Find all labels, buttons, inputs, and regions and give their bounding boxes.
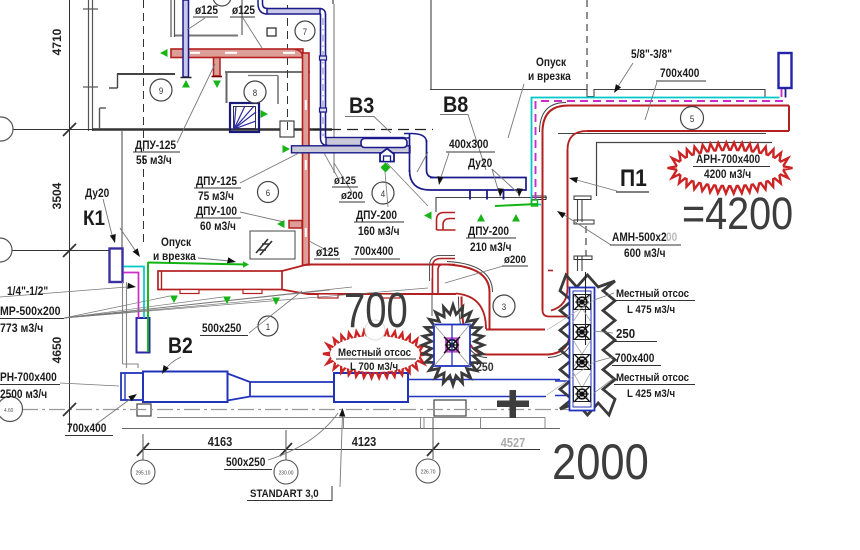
green arrow left B8 [424,212,432,220]
svg-text:3: 3 [502,302,507,313]
ceiling line y89 long [430,90,765,98]
wall x432 near U-turn [431,278,433,316]
red zigzag bubble Mestny otsos L700 [323,330,428,378]
wall stub mid-left [83,86,98,88]
leader 400x300 [440,153,449,180]
svg-text:226.70: 226.70 [421,469,436,475]
magenta pipe K1 [124,273,139,319]
green line opusk [148,263,247,265]
red duct 700 main horizontal [307,265,456,295]
svg-text:ДПУ-200: ДПУ-200 [468,225,509,238]
red duct descending wall right [489,292,491,329]
leader 500x250 lower [268,413,338,460]
level circle 295.10 [131,460,155,484]
red duct bottom-left outer arc [462,297,488,355]
axis circle row3 [0,397,23,422]
room circle 6 [258,182,279,203]
B8 riser from collector [404,134,412,139]
svg-text:МР-500х200: МР-500х200 [0,305,60,318]
red stub DPU-100 [289,221,302,229]
svg-text:Ду20: Ду20 [85,187,109,200]
blue box below K1 [137,318,150,353]
red duct top horizontal filled [171,49,303,58]
beam band above bottom dim [122,428,560,430]
B2 duct narrow run right [408,379,560,381]
red small cap x548 [548,270,553,272]
leader DPU-125-75 [240,153,299,183]
B8 room wall x431 [430,0,432,90]
svg-text:5: 5 [690,114,695,125]
svg-text:9: 9 [159,86,164,97]
red stub drop DPU-125 [214,58,221,77]
axis circle row1 [0,117,13,141]
fan glyph 4 [574,387,591,402]
svg-text:700х400: 700х400 [354,245,393,258]
room circle 3 [493,295,515,317]
svg-text:В2: В2 [168,334,193,358]
leader o200 B3 [334,163,352,192]
green arrows on MP leaders [170,296,178,304]
svg-text:60 м3/ч: 60 м3/ч [200,220,236,233]
B2 duct left cap box [121,373,143,400]
big plus sign [497,401,529,408]
room circle partial top [213,0,231,6]
wall vertical x242 [241,0,243,35]
svg-text:4.60: 4.60 [4,408,14,414]
svg-text:ø200: ø200 [341,191,363,203]
wardrobe symbol rect [250,231,295,259]
fan assembly centerline [585,272,587,345]
fan assembly blue rect [570,288,595,411]
level circle 230.00 [274,460,298,484]
leader DPU-200 green diamond [385,172,388,207]
svg-text:773 м3/ч: 773 м3/ч [0,322,43,335]
partition dashed x287 [287,5,289,130]
level circle 226.70 [416,459,440,483]
red duct 700 flanges [318,294,338,298]
svg-text:700: 700 [344,284,408,339]
room circle 5 [681,107,704,130]
bottom dim extension lines [142,434,144,461]
red duct right wall arc to fan assembly [551,288,568,311]
wall room8 left pier [226,72,228,103]
svg-text:и врезка: и врезка [528,70,572,83]
svg-text:2500 м3/ч: 2500 м3/ч [0,388,47,401]
dim tick row2 [63,244,76,257]
leader B2 [164,357,181,371]
wall corner top x333 [332,0,334,4]
B2 duct taper [228,374,251,401]
wall gray riser x334 [333,4,335,173]
leader STANDART [340,414,343,487]
partition dashed x143 [143,0,145,245]
svg-text:ДПУ-200: ДПУ-200 [356,209,397,222]
room circle 9 [150,79,172,101]
svg-text:400х300: 400х300 [449,138,488,151]
red duct bottom run [486,329,545,331]
room circle 4 [372,182,394,204]
svg-text:7: 7 [303,27,308,38]
svg-text:5/8"-3/8": 5/8"-3/8" [631,48,672,61]
B2 duct mid box [334,373,408,402]
green arrow down red stub [213,81,221,89]
wardrobe zigzag marks [256,239,272,255]
dashed line B3 corridor [313,129,433,131]
black zigzag ring around left fan [423,305,484,385]
axis line row1 [12,129,92,131]
svg-text:К1: К1 [83,207,105,230]
leader Du20 B8 [492,169,499,193]
B8 duct tabs [469,190,471,200]
red duct turn up right outer arc [548,331,570,355]
leader o125 B3 [324,153,338,178]
svg-text:L 425 м3/ч: L 425 м3/ч [627,389,675,401]
blue duct vertical B3 riser [320,14,322,138]
room circle 7 [295,21,315,41]
svg-text:АРН-700х400: АРН-700х400 [696,153,760,166]
bottom dim ticks [137,443,149,456]
wall vertical double x171 [170,0,172,37]
svg-text:1/4"-1/2": 1/4"-1/2" [7,285,48,298]
svg-text:250: 250 [616,326,635,341]
svg-text:00: 00 [666,231,677,244]
leader opusk-1 [198,258,230,261]
svg-text:4200 м3/ч: 4200 м3/ч [704,168,751,181]
svg-text:Местный отсос: Местный отсос [616,289,689,301]
wall left vertical double [88,0,90,131]
wall interior room9 horizontal [117,73,175,75]
magenta dashed line top-right [536,89,784,204]
wall pier bar [574,220,594,224]
svg-text:55 м3/ч: 55 м3/ч [136,154,172,167]
wall pier right vertical [577,200,579,222]
red duct turn down inner [456,294,486,330]
B2 duct narrow run [250,381,334,383]
leader o125-1 [187,18,205,30]
box below fan [434,400,466,416]
wall K1 vertical x122 [121,131,123,248]
svg-text:Опуск: Опуск [536,56,567,69]
wall under B8 duct [436,198,547,213]
red zigzag bubble ARN-700x400 [668,143,793,194]
svg-text:Ду20: Ду20 [468,157,492,170]
damper house symbol [380,149,394,162]
green arrow right collector [283,145,291,153]
svg-text:ДПУ-100: ДПУ-100 [196,205,237,218]
left fan box blue [434,325,470,367]
leader opusk-2 [508,84,524,138]
svg-text:4163: 4163 [208,435,233,449]
svg-text:250: 250 [476,361,494,374]
leader K1 second [120,228,137,253]
wall jog lower-left of room 9 [99,108,101,129]
B3 collector elbow [321,138,329,146]
svg-text:8: 8 [253,88,258,99]
bottom dimension line [143,449,540,451]
shaft fan lines [234,106,236,129]
hanger below B2 duct [137,404,151,416]
leader o125 bottom [309,241,330,252]
shaft hatched square inner [234,107,256,129]
dimension vertical line left [69,0,71,432]
green arrow left end red duct [160,49,168,57]
svg-text:В8: В8 [443,93,469,117]
svg-text:АМН-500х2: АМН-500х2 [612,231,667,244]
axis line row2 [11,250,122,252]
red duct 500x200 left [158,271,282,290]
leader B8 [440,115,486,171]
blue riser centerline [322,18,324,136]
room circle 8 [244,81,266,103]
wall room8 top [225,71,310,73]
red duct corner top [295,50,303,58]
wall room8 right pier [277,76,279,105]
P1 room wall [597,143,773,197]
leader RN-700x400 [60,383,119,386]
svg-text:ø125: ø125 [316,246,339,259]
svg-text:295.10: 295.10 [136,470,151,476]
B3 collector white pill [361,139,407,148]
green arrow up under blue duct [182,80,190,88]
B8 room dashed x587 upper [586,0,588,95]
B8 duct 400x300 horizontal [430,178,526,191]
axis centerline row3 [22,409,570,411]
svg-text:ø125: ø125 [232,4,255,17]
svg-text:4123: 4123 [352,435,377,449]
room circle 1 [258,316,278,336]
svg-text:Местный отсос: Местный отсос [616,373,689,385]
leader DPU-125-55 [177,64,215,143]
blue rect top-right riser [779,53,792,88]
leader o125-2 [243,18,262,48]
blue duct o125 vertical top-left [183,0,189,77]
leaders fan assembly texts [594,293,614,300]
leader P1 [573,179,617,191]
green diamond B3 [381,163,391,173]
green arrow left DPU100 [277,220,285,228]
red duct P1 top inner corner [568,131,588,150]
green arrow right shaft [261,110,269,118]
svg-text:L 475 м3/ч: L 475 м3/ч [627,305,675,317]
column small rect [267,28,276,36]
green riser K1 [147,262,149,352]
svg-text:ДПУ-125: ДПУ-125 [135,139,176,152]
svg-text:1: 1 [266,322,271,333]
crossing white box on riser [280,121,294,137]
partition dashed x586 mid [585,226,587,256]
black zigzag band around fan assembly [560,275,615,415]
red duct 700x400 top-right horizontal [568,105,789,107]
B2 duct main box [143,372,228,403]
svg-text:ø125: ø125 [334,176,356,188]
red duct flange marks 500x200 [180,290,199,294]
svg-text:и врезка: и врезка [153,250,197,263]
svg-text:ДПУ-125: ДПУ-125 [196,175,237,188]
green arrow end of green line [243,261,249,267]
svg-text:600 м3/ч: 600 м3/ч [624,247,665,260]
red duct vertical to P1 [542,131,544,310]
K1 blue box [110,249,123,283]
svg-text:П1: П1 [620,165,647,192]
svg-text:4: 4 [381,189,386,200]
fan glyph 3 [574,355,591,370]
line under red duct y133 [558,133,766,135]
svg-text:6: 6 [266,188,271,199]
blue elbow top-left [258,0,268,14]
wall bottom of upper rooms [92,128,332,131]
svg-text:500х250: 500х250 [202,322,241,335]
gray riser pair [122,282,124,364]
wall pier left of P1 duct upper [532,196,546,200]
B8 elbow to horizontal [410,170,431,190]
leader 5/8-3/8 [617,63,633,88]
green line B8 drop [495,204,537,206]
leader AMN [561,213,611,245]
leader 700x400 top [645,82,657,120]
svg-text:ø200: ø200 [504,255,526,267]
wall pier right of P1 duct upper [574,196,591,200]
fan glyph 1 [574,295,591,310]
red elbow branch 2 [433,259,456,294]
red duct turn down outer arc [447,265,490,293]
svg-text:75 м3/ч: 75 м3/ч [198,190,234,203]
red transition 500x200 to 700 [282,265,307,295]
svg-text:210 м3/ч: 210 м3/ч [470,241,511,254]
wall stub top-left [83,8,98,10]
svg-text:160 м3/ч: 160 м3/ч [358,225,399,238]
red duct P1 top corner outer [543,106,569,133]
blue riser joints [320,108,327,112]
svg-text:РН-700х400: РН-700х400 [0,371,57,384]
dim tick row3 [63,403,76,416]
svg-text:3504: 3504 [50,182,64,209]
wall interior room9 step [117,74,119,88]
svg-text:ø125: ø125 [195,4,218,17]
cyan pipe K1 [124,267,145,319]
svg-text:500х250: 500х250 [226,456,265,469]
ghost circle 2 [365,320,385,340]
svg-text:230.00: 230.00 [279,470,294,476]
leader o200 lower [445,266,503,283]
svg-text:700х400: 700х400 [660,67,699,80]
leader DPU-100-60 [240,212,284,222]
red duct vertical riser filled [303,53,310,265]
fan glyph 2 [574,325,591,340]
svg-text:2000: 2000 [552,434,649,489]
shaft hatched square outer [230,103,259,132]
svg-text:L 700 м3/ч: L 700 м3/ч [350,362,398,374]
svg-text:700х400: 700х400 [615,352,654,365]
dim tick row1 [63,123,76,136]
axis circle row2 [0,238,12,262]
svg-text:4710: 4710 [50,28,64,55]
wall pier lower [577,256,579,271]
wall gray top shelf [175,35,238,37]
leader fan lines from MP-500x200 [0,287,127,297]
leader 500x250 upper [249,291,302,333]
leader 700x400 bottom-left [95,397,133,425]
green up arrows DPU-200 [477,214,485,222]
leader Du20 K1 [103,199,113,239]
leader B3 [345,117,391,134]
left fan glyph [446,339,458,352]
svg-text:Опуск: Опуск [161,236,192,249]
svg-text:700х400: 700х400 [67,422,106,435]
blue elbow to vertical [320,9,326,15]
left fan X diagonals [434,325,470,367]
svg-text:STANDART 3,0: STANDART 3,0 [250,489,319,501]
cyan line top-right [532,98,780,205]
svg-text:Местный отсос: Местный отсос [338,348,411,360]
svg-text:В3: В3 [349,94,375,118]
svg-text:4650: 4650 [50,336,64,363]
blue duct o125 cap [181,77,192,79]
B3 collector band lower [292,146,411,153]
B3 collector gray band upper [326,138,404,146]
svg-text:4527: 4527 [501,436,526,450]
red duct left wall jog to fan assembly [543,310,577,317]
red elbow branch 1 [437,213,456,231]
svg-text:=4200: =4200 [682,189,793,239]
fan assembly gray X lines [573,294,591,322]
blue duct top horizontal [267,9,320,15]
